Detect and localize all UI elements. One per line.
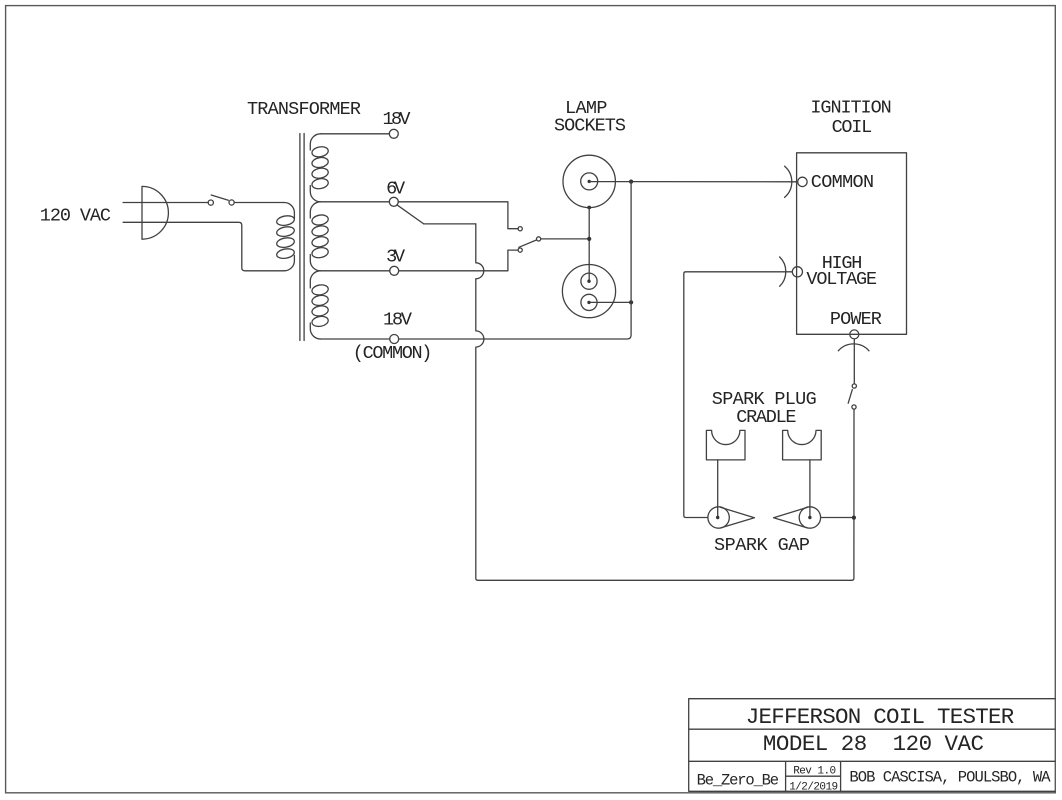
wire left cradle to spark plug SP1 [717, 460, 719, 518]
wire switch S3 to spark gap junction and bottom run [852, 409, 854, 580]
wire 3V tap [321, 270, 390, 272]
transformer T1 secondary winding 3V-COMMON [310, 271, 329, 339]
svg-text:(COMMON): (COMMON) [353, 343, 433, 364]
svg-text:120 VAC: 120 VAC [40, 206, 111, 227]
spark plug SP2 electrode [774, 507, 821, 528]
switch arm from 6V terminal [397, 205, 424, 224]
switch S2 selector upper throw contact [518, 227, 522, 231]
svg-text:BOB CASCISA, POULSBO, WA: BOB CASCISA, POULSBO, WA [849, 769, 1051, 787]
junction LS1 shell [587, 206, 591, 210]
wire left vertical drop with hops over 3V and COMMON lines [476, 224, 484, 580]
connector arc COMMON [785, 166, 792, 197]
svg-text:18V: 18V [383, 310, 412, 331]
svg-text:1/2/2019: 1/2/2019 [789, 782, 838, 794]
wire spark gap right to riser [821, 517, 854, 519]
spark plug cradle left [706, 430, 745, 460]
svg-text:VOLTAGE: VOLTAGE [806, 269, 877, 290]
switch S2 selector pole [537, 237, 541, 241]
wire 6V tap [321, 201, 390, 203]
wire neutral prong to primary bottom [123, 222, 284, 270]
wire lamp LS1 center to ignition coil COMMON [589, 181, 798, 183]
terminal 18V [389, 129, 398, 138]
transformer T1 core [300, 134, 304, 341]
svg-text:POWER: POWER [830, 309, 882, 330]
label 6V [386, 178, 405, 199]
label IGNITION COIL [810, 98, 891, 139]
wire 18V tap [321, 133, 390, 135]
connector arc POWER [838, 344, 869, 351]
title text MODEL 28 120 VAC [763, 731, 984, 757]
ignition coil U1 body [797, 153, 907, 334]
svg-text:SOCKETS: SOCKETS [554, 115, 626, 136]
wire bottom return run [478, 579, 852, 581]
label 3V [386, 246, 405, 267]
junction LS2 to riser [629, 300, 633, 304]
title text Be_Zero_Be [697, 771, 779, 789]
wire HIGH VOLTAGE to spark gap left [684, 272, 793, 518]
title text BOB CASCISA, POULSBO, WA [849, 769, 1051, 787]
title block frame [689, 699, 1055, 792]
title text date 1/2/2019 [789, 782, 838, 794]
transformer T1 secondary winding 6V-3V [310, 202, 329, 271]
switch S3 power [848, 384, 856, 409]
terminal 3V [390, 266, 399, 275]
svg-text:COIL: COIL [832, 117, 873, 138]
wire right cradle to spark plug SP2 [809, 460, 811, 518]
terminal POWER [850, 330, 859, 339]
lamp socket LS1 [563, 155, 615, 207]
svg-text:3V: 3V [386, 246, 405, 267]
switch S2 selector arm [519, 240, 537, 247]
junction lamp feed [629, 180, 633, 184]
switch S2 selector lower throw contact [518, 248, 522, 252]
transformer T1 secondary winding 18V-6V [310, 134, 329, 202]
wire switch S1 to transformer primary [234, 202, 284, 204]
label COMMON [811, 172, 874, 193]
transformer T1 primary winding [276, 203, 295, 271]
label SPARK PLUG CRADLE [712, 389, 817, 428]
label POWER [830, 309, 882, 330]
label HIGH VOLTAGE [806, 253, 877, 290]
plug P1 120 VAC line cord [142, 186, 168, 239]
terminal 6V [389, 197, 398, 206]
wire 18V common tap [321, 338, 390, 340]
svg-text:18V: 18V [383, 109, 411, 130]
label TRANSFORMER [247, 99, 361, 120]
title text JEFFERSON COIL TESTER [746, 704, 1015, 730]
connector arc HIGH VOLTAGE [780, 257, 786, 286]
junction spark gap riser [852, 516, 856, 520]
wire 6V terminal to selector upper throw [398, 202, 518, 229]
terminal 18V COMMON [390, 335, 399, 344]
label 120 VAC [40, 206, 111, 227]
svg-text:JEFFERSON COIL TESTER: JEFFERSON COIL TESTER [746, 704, 1015, 730]
wire lamp LS2 lower contact to common riser [589, 301, 631, 303]
terminal HIGH VOLTAGE [792, 267, 802, 277]
junction selector pole node [587, 237, 591, 241]
label 18V [383, 109, 411, 130]
svg-text:SPARK GAP: SPARK GAP [714, 535, 810, 556]
label 18V (COMMON) [353, 310, 433, 365]
svg-text:Be_Zero_Be: Be_Zero_Be [697, 771, 779, 789]
wire selector pole to lamp junction [541, 238, 589, 240]
terminal COMMON [798, 177, 807, 186]
wire POWER terminal to switch S3 [853, 339, 855, 384]
spark plug cradle right [783, 430, 822, 460]
title text Rev 1.0 [793, 766, 836, 778]
svg-text:Rev 1.0: Rev 1.0 [793, 766, 836, 778]
spark plug SP1 electrode [708, 507, 755, 528]
wire selector lower throw to 3V line [399, 250, 519, 271]
svg-text:MODEL 28 120 VAC: MODEL 28 120 VAC [763, 731, 984, 757]
label SPARK GAP [714, 535, 810, 556]
label LAMP SOCKETS [554, 98, 626, 136]
wire common riser down to 18V COMMON line [399, 182, 632, 339]
lamp socket LS2 [562, 265, 615, 318]
wire 6V arm to left drop [424, 223, 476, 225]
svg-text:6V: 6V [386, 178, 405, 199]
svg-text:TRANSFORMER: TRANSFORMER [247, 99, 361, 120]
switch S1 mains on-off [208, 195, 234, 205]
wire lamp LS1 shell to lamp LS2 top contact [588, 208, 590, 282]
wire hot prong to switch S1 [123, 202, 208, 204]
svg-text:CRADLE: CRADLE [736, 407, 796, 428]
svg-text:IGNITION: IGNITION [810, 98, 891, 119]
svg-text:COMMON: COMMON [811, 172, 874, 193]
